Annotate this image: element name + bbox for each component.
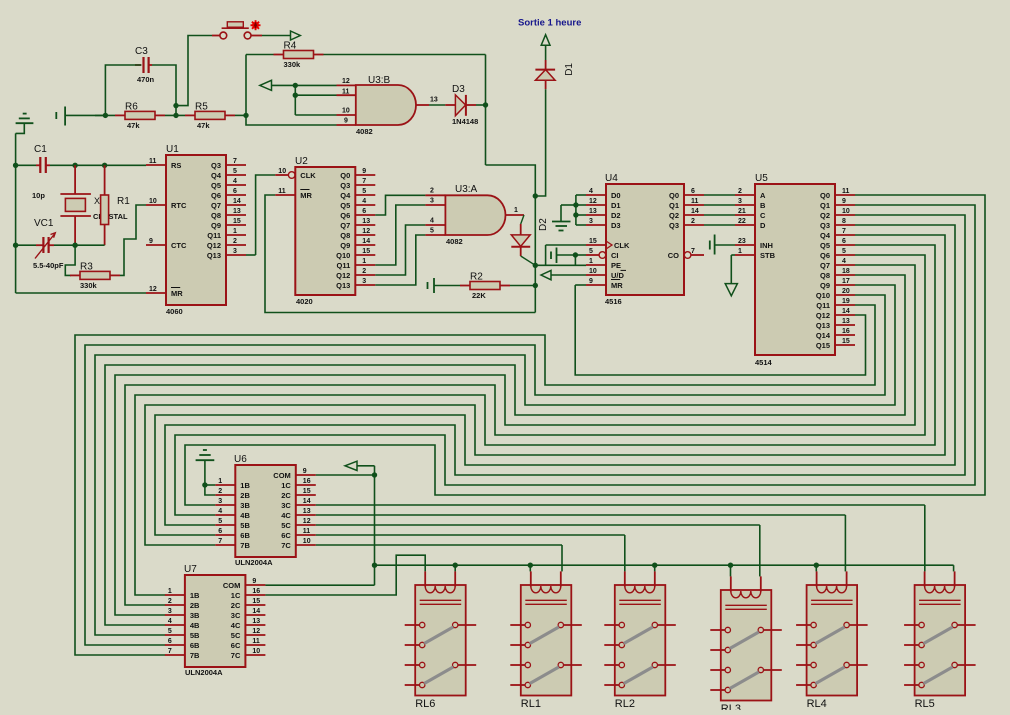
svg-text:4B: 4B bbox=[190, 621, 200, 630]
wire D1 to main node bbox=[535, 89, 545, 196]
wire to pin11 bbox=[295, 94, 336, 96]
svg-text:STB: STB bbox=[760, 251, 776, 260]
svg-text:11: 11 bbox=[303, 528, 311, 535]
node R5 right / R4 vertical bbox=[243, 113, 248, 118]
svg-text:1N4148: 1N4148 bbox=[452, 117, 478, 126]
svg-text:1C: 1C bbox=[231, 591, 241, 600]
resistor R3 bbox=[70, 261, 120, 290]
svg-text:Q9: Q9 bbox=[820, 281, 830, 290]
chip U4 4516 bbox=[586, 173, 704, 306]
svg-text:CLK: CLK bbox=[300, 171, 316, 180]
svg-text:12: 12 bbox=[149, 286, 157, 293]
svg-text:4020: 4020 bbox=[296, 297, 313, 306]
svg-text:Q3: Q3 bbox=[820, 221, 830, 230]
svg-text:7C: 7C bbox=[231, 651, 241, 660]
svg-text:4082: 4082 bbox=[446, 237, 463, 246]
svg-text:2: 2 bbox=[233, 238, 237, 245]
wire U5 Q1 to driver input bbox=[175, 205, 975, 515]
capacitor VC1 (variable) bbox=[33, 218, 64, 270]
ground (U6 1B 2B) bbox=[196, 450, 216, 495]
svg-text:9: 9 bbox=[362, 168, 366, 175]
svg-text:15: 15 bbox=[842, 338, 850, 345]
svg-text:CRYSTAL: CRYSTAL bbox=[93, 212, 128, 221]
svg-text:9: 9 bbox=[252, 578, 256, 585]
relay RL5 bbox=[904, 571, 976, 710]
wire arrow to pin12 bbox=[272, 84, 337, 86]
node VC1 left / rail junction bbox=[13, 243, 18, 248]
wire U6 7C to RL1 coil bbox=[316, 545, 562, 571]
wire U7 COM row bbox=[265, 584, 374, 586]
wire U2 Q11 to U3:A pin3 bbox=[375, 205, 425, 265]
terminal arrow (button) bbox=[291, 31, 301, 40]
svg-text:16: 16 bbox=[842, 328, 850, 335]
svg-text:C: C bbox=[760, 211, 766, 220]
svg-text:D0: D0 bbox=[611, 191, 621, 200]
svg-text:1B: 1B bbox=[240, 481, 250, 490]
svg-text:18: 18 bbox=[842, 268, 850, 275]
svg-text:D3: D3 bbox=[611, 221, 621, 230]
wire button left to C3 leg bbox=[176, 36, 220, 106]
svg-text:2: 2 bbox=[430, 188, 434, 195]
svg-text:U/D: U/D bbox=[611, 271, 625, 280]
capacitor C3 bbox=[135, 46, 155, 84]
ground (U4 data) bbox=[552, 205, 576, 231]
wire relay supply rail y=565 bbox=[375, 564, 954, 566]
svg-text:4: 4 bbox=[233, 178, 237, 185]
svg-text:COM: COM bbox=[223, 581, 241, 590]
svg-text:4082: 4082 bbox=[356, 127, 373, 136]
wire U5 Q6 to driver input bbox=[125, 255, 925, 605]
svg-text:12: 12 bbox=[342, 78, 350, 85]
svg-text:Q15: Q15 bbox=[816, 341, 830, 350]
svg-text:14: 14 bbox=[303, 498, 311, 505]
svg-text:9: 9 bbox=[842, 198, 846, 205]
svg-text:4B: 4B bbox=[240, 511, 250, 520]
svg-text:R2: R2 bbox=[470, 272, 483, 283]
wire VC1 node to R3 bbox=[65, 245, 75, 275]
svg-text:Q12: Q12 bbox=[816, 311, 830, 320]
svg-text:1: 1 bbox=[738, 248, 742, 255]
crystal X1 bbox=[60, 165, 128, 245]
svg-text:Q7: Q7 bbox=[820, 261, 830, 270]
svg-text:6C: 6C bbox=[281, 531, 291, 540]
svg-text:1: 1 bbox=[514, 207, 518, 214]
svg-text:RL2: RL2 bbox=[615, 698, 635, 710]
wire U4 Q0 to U5 bbox=[704, 194, 735, 196]
node pin11 branch bbox=[293, 93, 298, 98]
chip U1 4060 bbox=[146, 144, 246, 316]
svg-text:D2: D2 bbox=[611, 211, 621, 220]
svg-text:D1: D1 bbox=[611, 201, 621, 210]
svg-text:U4: U4 bbox=[605, 173, 618, 184]
wire branch vertical x=295.3 bbox=[294, 85, 296, 115]
svg-text:D3: D3 bbox=[452, 84, 465, 95]
svg-text:B: B bbox=[760, 201, 766, 210]
wire U4 Q2 to U5 bbox=[704, 214, 735, 216]
svg-text:5C: 5C bbox=[231, 631, 241, 640]
svg-text:14: 14 bbox=[691, 208, 699, 215]
svg-text:U2: U2 bbox=[295, 156, 308, 167]
svg-text:R6: R6 bbox=[125, 101, 138, 112]
svg-text:10: 10 bbox=[278, 168, 286, 175]
svg-text:MR: MR bbox=[611, 281, 623, 290]
svg-text:7: 7 bbox=[691, 248, 695, 255]
svg-text:10: 10 bbox=[589, 268, 597, 275]
svg-text:5: 5 bbox=[430, 228, 434, 235]
svg-text:1B: 1B bbox=[190, 591, 200, 600]
svg-text:4060: 4060 bbox=[166, 307, 183, 316]
svg-text:4: 4 bbox=[430, 218, 434, 225]
svg-text:2B: 2B bbox=[240, 491, 250, 500]
wire U5 Q10 to driver input bbox=[85, 295, 885, 645]
power terminal left of R6 + wire bbox=[56, 107, 105, 126]
relay RL2 bbox=[604, 571, 676, 710]
svg-text:1: 1 bbox=[218, 478, 222, 485]
resistor R1 (vertical) bbox=[101, 165, 131, 245]
svg-text:Q13: Q13 bbox=[207, 251, 221, 260]
svg-text:COM: COM bbox=[273, 471, 291, 480]
svg-text:C3: C3 bbox=[135, 46, 148, 57]
resistor R2 bbox=[460, 272, 510, 301]
op-amp U3:A (4082 AND gate) bbox=[445, 184, 505, 246]
wire U1 MR row y=293 bbox=[16, 292, 146, 294]
svg-text:ULN2004A: ULN2004A bbox=[235, 558, 273, 567]
wire U5 Q8 to driver input bbox=[105, 275, 905, 625]
svg-text:7: 7 bbox=[842, 228, 846, 235]
svg-text:14: 14 bbox=[233, 198, 241, 205]
svg-text:Q13: Q13 bbox=[816, 321, 830, 330]
svg-text:330k: 330k bbox=[80, 281, 98, 290]
node D1 branch bbox=[533, 193, 538, 198]
wire C3 left leg bbox=[105, 65, 141, 115]
svg-text:Q0: Q0 bbox=[820, 191, 830, 200]
svg-text:Q2: Q2 bbox=[820, 211, 830, 220]
svg-text:Q4: Q4 bbox=[820, 231, 831, 240]
wire U4 MR to U5 Q12 bbox=[575, 285, 865, 375]
wire R4-right vertical x=485.5 bbox=[485, 55, 487, 166]
svg-text:Q0: Q0 bbox=[669, 191, 679, 200]
svg-text:13: 13 bbox=[589, 208, 597, 215]
svg-text:Q5: Q5 bbox=[211, 181, 221, 190]
terminal arrow (relay supply) bbox=[345, 461, 357, 470]
node rail start bbox=[372, 563, 377, 568]
svg-text:12: 12 bbox=[589, 198, 597, 205]
svg-text:7: 7 bbox=[218, 538, 222, 545]
wire U4 Q1 to U5 bbox=[704, 204, 735, 206]
svg-text:Q10: Q10 bbox=[816, 291, 830, 300]
svg-text:RTC: RTC bbox=[171, 201, 187, 210]
svg-text:11: 11 bbox=[278, 188, 286, 195]
svg-text:23: 23 bbox=[738, 238, 746, 245]
wire C3 right leg x=176 bbox=[152, 65, 176, 115]
node R6-R5 junction bbox=[173, 113, 178, 118]
svg-text:1: 1 bbox=[362, 258, 366, 265]
svg-text:5: 5 bbox=[168, 628, 172, 635]
svg-text:Q6: Q6 bbox=[211, 191, 221, 200]
svg-text:6B: 6B bbox=[240, 531, 250, 540]
push button bbox=[220, 22, 251, 39]
node RL2 coil right bbox=[652, 563, 657, 568]
svg-text:5.5-40pF: 5.5-40pF bbox=[33, 261, 64, 270]
svg-text:6: 6 bbox=[842, 238, 846, 245]
svg-text:5: 5 bbox=[589, 248, 593, 255]
wire D2 to main node bbox=[521, 256, 536, 265]
wire rail end to RL5 bbox=[953, 565, 955, 571]
svg-text:Q11: Q11 bbox=[337, 261, 351, 270]
svg-text:4: 4 bbox=[589, 188, 593, 195]
svg-text:R5: R5 bbox=[195, 101, 208, 112]
svg-text:3: 3 bbox=[168, 608, 172, 615]
wire U2 Q13 to U3:A pin5 bbox=[375, 235, 425, 285]
wire U7 1C to RL6 coil bbox=[265, 555, 425, 595]
svg-text:13: 13 bbox=[252, 618, 260, 625]
wire rail to RL3 bbox=[730, 565, 732, 576]
svg-text:10: 10 bbox=[149, 198, 157, 205]
svg-text:VC1: VC1 bbox=[34, 218, 54, 229]
wire U6 6C to RL2 coil bbox=[316, 535, 625, 571]
wire U5 Q3 to driver input bbox=[155, 225, 955, 535]
ground (top-left) bbox=[16, 114, 34, 134]
chip U6 ULN2004A bbox=[215, 454, 315, 567]
node D1 row bbox=[573, 202, 578, 207]
label Sortie 1 heure bbox=[518, 18, 581, 29]
svg-text:R1: R1 bbox=[117, 196, 130, 207]
svg-text:5: 5 bbox=[233, 168, 237, 175]
svg-text:5C: 5C bbox=[281, 521, 291, 530]
svg-text:11: 11 bbox=[149, 158, 157, 165]
wire U5 STB bbox=[731, 255, 735, 284]
svg-text:4514: 4514 bbox=[755, 358, 773, 367]
svg-text:5: 5 bbox=[362, 188, 366, 195]
wire VC1 row y=245 bbox=[16, 244, 105, 246]
svg-text:19: 19 bbox=[842, 298, 850, 305]
svg-text:Q4: Q4 bbox=[340, 191, 351, 200]
svg-text:12: 12 bbox=[303, 518, 311, 525]
svg-text:3C: 3C bbox=[231, 611, 241, 620]
svg-text:CTC: CTC bbox=[171, 241, 187, 250]
diode D3 1N4148 bbox=[445, 84, 478, 126]
svg-text:21: 21 bbox=[738, 208, 746, 215]
svg-text:47k: 47k bbox=[127, 121, 140, 130]
svg-text:6: 6 bbox=[691, 188, 695, 195]
svg-text:CO: CO bbox=[668, 251, 679, 260]
svg-text:Q8: Q8 bbox=[211, 211, 221, 220]
wire U2 Q6 to U3:A pin2 bbox=[375, 195, 425, 215]
node RL6 coil right bbox=[453, 563, 458, 568]
svg-text:RL5: RL5 bbox=[915, 698, 935, 710]
svg-text:Q7: Q7 bbox=[211, 201, 221, 210]
svg-text:RL4: RL4 bbox=[807, 698, 827, 710]
node CI row bbox=[573, 252, 578, 257]
resistor R4 bbox=[274, 41, 324, 70]
node D2 row bbox=[573, 212, 578, 217]
relay RL1 bbox=[510, 571, 582, 710]
svg-text:Q5: Q5 bbox=[820, 241, 830, 250]
svg-text:Q10: Q10 bbox=[336, 251, 350, 260]
svg-text:6: 6 bbox=[362, 208, 366, 215]
svg-text:13: 13 bbox=[233, 208, 241, 215]
svg-text:22K: 22K bbox=[472, 291, 486, 300]
svg-text:U7: U7 bbox=[184, 564, 197, 575]
svg-text:Q13: Q13 bbox=[336, 281, 350, 290]
svg-text:Q1: Q1 bbox=[669, 201, 679, 210]
svg-text:11: 11 bbox=[342, 89, 350, 96]
svg-text:13: 13 bbox=[362, 218, 370, 225]
wire left rail x=15.6 bbox=[15, 133, 17, 293]
svg-text:Q14: Q14 bbox=[816, 331, 831, 340]
svg-text:4: 4 bbox=[842, 258, 846, 265]
node pin12 branch bbox=[293, 83, 298, 88]
svg-text:D: D bbox=[760, 221, 766, 230]
terminal arrow (U3:B pin12) bbox=[260, 80, 272, 90]
svg-text:7: 7 bbox=[362, 178, 366, 185]
power terminal left of R2 bbox=[428, 278, 461, 293]
svg-text:2: 2 bbox=[362, 268, 366, 275]
capacitor C1 bbox=[32, 144, 50, 200]
wire COM vertical x=374.5 bbox=[357, 466, 375, 585]
svg-text:7: 7 bbox=[233, 158, 237, 165]
svg-text:10: 10 bbox=[342, 108, 350, 115]
wire terminal to D1 bbox=[545, 45, 547, 60]
svg-text:U3:A: U3:A bbox=[455, 184, 478, 195]
wire U6 3C to RL5 coil bbox=[316, 505, 925, 571]
svg-text:22: 22 bbox=[738, 218, 746, 225]
svg-text:4: 4 bbox=[168, 618, 172, 625]
svg-text:Q3: Q3 bbox=[340, 181, 350, 190]
resistor R6 bbox=[115, 101, 165, 129]
svg-text:5: 5 bbox=[218, 518, 222, 525]
wire rail to RL4 bbox=[815, 565, 817, 571]
svg-text:17: 17 bbox=[842, 278, 850, 285]
svg-text:INH: INH bbox=[760, 241, 773, 250]
svg-text:U5: U5 bbox=[755, 173, 768, 184]
svg-text:3: 3 bbox=[362, 278, 366, 285]
wire main node to U2 MR bbox=[265, 195, 535, 313]
svg-text:4516: 4516 bbox=[605, 297, 622, 306]
relay RL4 bbox=[796, 571, 868, 710]
svg-text:6: 6 bbox=[233, 188, 237, 195]
svg-text:3: 3 bbox=[430, 198, 434, 205]
svg-text:330k: 330k bbox=[284, 60, 302, 69]
svg-text:11: 11 bbox=[252, 638, 260, 645]
svg-text:13: 13 bbox=[842, 318, 850, 325]
svg-text:47k: 47k bbox=[197, 121, 210, 130]
svg-text:2: 2 bbox=[168, 598, 172, 605]
svg-text:RL1: RL1 bbox=[521, 698, 541, 710]
svg-text:Q12: Q12 bbox=[207, 241, 221, 250]
push button red indicator star bbox=[251, 20, 261, 30]
node RL1 coil left bbox=[528, 563, 533, 568]
svg-text:2C: 2C bbox=[231, 601, 241, 610]
svg-text:4C: 4C bbox=[231, 621, 241, 630]
wire main vertical x=535.3 bbox=[486, 165, 536, 313]
svg-text:6: 6 bbox=[218, 528, 222, 535]
svg-text:3C: 3C bbox=[281, 501, 291, 510]
svg-text:5: 5 bbox=[842, 248, 846, 255]
wire U5 Q4 to driver input bbox=[145, 235, 945, 545]
svg-text:13: 13 bbox=[430, 97, 438, 104]
svg-text:15: 15 bbox=[362, 248, 370, 255]
svg-text:Q5: Q5 bbox=[340, 201, 350, 210]
svg-text:U3:B: U3:B bbox=[368, 75, 391, 86]
wire R4 row bbox=[246, 54, 486, 56]
svg-text:7B: 7B bbox=[240, 541, 250, 550]
svg-text:7C: 7C bbox=[281, 541, 291, 550]
wire rail to RL6 bbox=[454, 565, 456, 571]
node D2 / PE branch bbox=[533, 263, 538, 268]
svg-text:4C: 4C bbox=[281, 511, 291, 520]
terminal arrow up (Sortie) bbox=[541, 35, 550, 46]
terminal arrow down (STB) bbox=[725, 284, 737, 296]
svg-text:Q3: Q3 bbox=[211, 161, 221, 170]
svg-text:Q11: Q11 bbox=[816, 301, 830, 310]
power terminal at U5 INH bbox=[710, 235, 735, 255]
wire gate out diagonal bbox=[521, 215, 524, 224]
pin U3:A output 1 bbox=[506, 207, 525, 215]
svg-text:3: 3 bbox=[589, 218, 593, 225]
svg-text:470n: 470n bbox=[137, 75, 155, 84]
wire rail to RL2 bbox=[654, 565, 656, 571]
wire U6 5C to RL3 coil bbox=[316, 525, 760, 576]
op-amp U3:B (4082 AND gate) bbox=[356, 75, 416, 136]
svg-text:11: 11 bbox=[842, 188, 850, 195]
wire RS row y=165 bbox=[16, 164, 146, 166]
diode D1 (LED) bbox=[535, 60, 575, 89]
svg-text:15: 15 bbox=[233, 218, 241, 225]
svg-text:RS: RS bbox=[171, 161, 181, 170]
svg-text:RL3: RL3 bbox=[721, 703, 741, 710]
svg-text:9: 9 bbox=[303, 468, 307, 475]
svg-text:12: 12 bbox=[252, 628, 260, 635]
svg-text:R4: R4 bbox=[284, 41, 297, 52]
svg-text:MR: MR bbox=[171, 289, 183, 298]
wire U5 Q9 to driver input bbox=[95, 285, 895, 635]
node D3 cathode / R4 vertical bbox=[483, 102, 488, 107]
svg-text:PE: PE bbox=[611, 261, 621, 270]
svg-text:Q9: Q9 bbox=[211, 221, 221, 230]
svg-text:CI: CI bbox=[611, 251, 619, 260]
svg-text:Q7: Q7 bbox=[340, 221, 350, 230]
svg-text:ULN2004A: ULN2004A bbox=[185, 668, 223, 677]
node RL3 coil left bbox=[728, 563, 733, 568]
svg-text:Sortie 1 heure: Sortie 1 heure bbox=[518, 18, 581, 29]
terminal arrow (U4 U/D) + wire bbox=[541, 270, 586, 279]
pin U3:B output 13 bbox=[416, 97, 445, 106]
wire rail to RL1 bbox=[529, 565, 531, 571]
wire CI to PE bbox=[575, 255, 586, 265]
svg-text:3: 3 bbox=[738, 198, 742, 205]
svg-text:Q12: Q12 bbox=[336, 271, 350, 280]
power terminal at U4 CI bbox=[551, 248, 575, 264]
wire U5 Q2 to driver input bbox=[165, 215, 965, 525]
wire U6 4C to RL4 coil bbox=[316, 515, 846, 571]
wire U5 Q7 to driver input bbox=[115, 265, 915, 615]
svg-text:Q4: Q4 bbox=[211, 171, 222, 180]
node crystal top bbox=[72, 163, 77, 168]
svg-text:Q3: Q3 bbox=[669, 221, 679, 230]
svg-text:7B: 7B bbox=[190, 651, 200, 660]
svg-text:4: 4 bbox=[362, 198, 366, 205]
svg-text:10: 10 bbox=[252, 648, 260, 655]
wire R6 row gaps bbox=[95, 114, 185, 116]
chip U7 ULN2004A bbox=[165, 564, 266, 677]
svg-text:Q9: Q9 bbox=[340, 241, 350, 250]
svg-text:3B: 3B bbox=[240, 501, 250, 510]
svg-text:1: 1 bbox=[589, 258, 593, 265]
svg-text:14: 14 bbox=[362, 238, 370, 245]
diode D2 (LED) bbox=[511, 218, 549, 256]
svg-text:9: 9 bbox=[149, 238, 153, 245]
